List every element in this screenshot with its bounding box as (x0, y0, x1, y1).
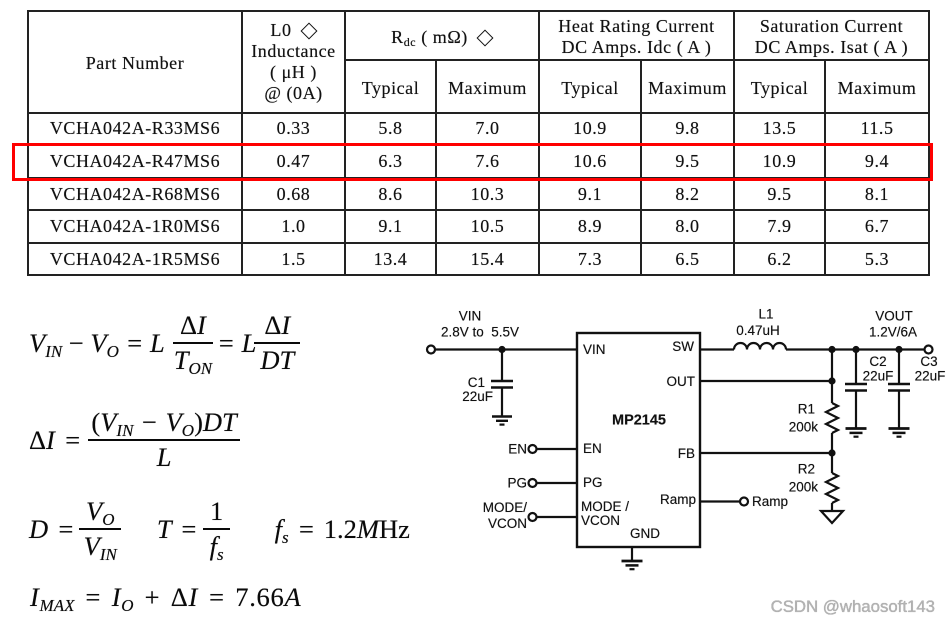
svg-text:MP2145: MP2145 (612, 413, 666, 429)
wire FB (700, 452, 832, 454)
svg-text:VCON: VCON (488, 516, 527, 531)
pin label MODE/VCON (581, 499, 629, 528)
svg-text:C1: C1 (468, 375, 485, 390)
ground GND pin (622, 561, 643, 569)
pin label OUT (667, 374, 696, 389)
wire PG (537, 482, 578, 484)
op IC U1 MP2145 body (577, 333, 700, 547)
svg-text:OUT: OUT (667, 374, 696, 389)
wire L1 to VOUT (786, 348, 924, 350)
label MP2145 (612, 413, 666, 429)
label C2 22uF (863, 354, 894, 384)
svg-text:1.2V/6A: 1.2V/6A (869, 325, 917, 340)
svg-text:FB: FB (678, 446, 695, 461)
terminal PG (507, 476, 536, 491)
svg-text:SW: SW (672, 339, 694, 354)
svg-text:MODE /: MODE / (581, 499, 629, 514)
highlight box around row VCHA042A-R47MS6 (12, 143, 933, 181)
ground C3 (889, 429, 910, 437)
node VIN input terminal (427, 346, 435, 354)
watermark (771, 597, 935, 617)
resistor R1 (826, 403, 838, 453)
label C3 22uF (915, 354, 946, 384)
formula 4: Imax = Io + dI = 7.66A (30, 582, 301, 613)
terminal MODE/VCON (483, 500, 537, 531)
svg-text:2.8V to 5.5V: 2.8V to 5.5V (441, 325, 519, 340)
spec table (27, 10, 930, 276)
svg-text:22uF: 22uF (863, 369, 894, 384)
svg-text:200k: 200k (789, 420, 819, 435)
ground C2 (846, 429, 867, 437)
svg-text:MODE/: MODE/ (483, 500, 528, 515)
ground R2 arrow (821, 511, 843, 523)
pin label VIN (583, 342, 606, 357)
label L1 0.47uH (736, 307, 780, 339)
formula 3: D = Vo/Vin T = 1/fs fs = 1.2MHz (29, 496, 410, 562)
svg-text:22uF: 22uF (915, 369, 946, 384)
svg-text:C2: C2 (869, 354, 886, 369)
pin label PG (583, 475, 603, 490)
svg-text:PG: PG (583, 475, 603, 490)
junction FB/R1/R2 (828, 449, 835, 456)
svg-text:200k: 200k (789, 480, 819, 495)
svg-text:GND: GND (630, 526, 660, 541)
junction VIN/C1 (498, 346, 505, 353)
terminal EN (508, 442, 536, 457)
node VOUT terminal (925, 346, 933, 354)
capacitor C1 (491, 350, 513, 417)
wire SW to L1 (700, 348, 734, 350)
label R1 200k (789, 402, 819, 435)
inductor L1 (734, 343, 786, 349)
junction SW node / R1 branch (828, 346, 835, 353)
svg-text:0.47uH: 0.47uH (736, 323, 780, 338)
svg-text:VIN: VIN (583, 342, 606, 357)
svg-text:EN: EN (583, 441, 602, 456)
label VOUT (869, 309, 917, 340)
svg-text:R1: R1 (798, 402, 815, 417)
wire GND pin (631, 547, 633, 560)
pin label SW (672, 339, 694, 354)
svg-text:Ramp: Ramp (660, 492, 696, 507)
svg-text:R2: R2 (798, 462, 815, 477)
svg-text:VIN: VIN (459, 309, 482, 324)
wire OUT to R1 top (700, 380, 832, 382)
wire MODE/VCON (537, 516, 578, 518)
label VIN supply (441, 309, 519, 340)
svg-text:C3: C3 (920, 354, 937, 369)
resistor R2 (826, 453, 838, 511)
pin label EN (583, 441, 602, 456)
wire VIN to IC (435, 348, 577, 350)
formula 1: Vin - Vo = L dI/Ton = L dI/DT (29, 310, 303, 376)
pin label FB (678, 446, 695, 461)
svg-text:VOUT: VOUT (875, 309, 913, 324)
junction OUT/R1 (828, 377, 835, 384)
junction C3 (895, 346, 902, 353)
wire EN (537, 448, 578, 450)
label C1 22uF (462, 375, 493, 404)
label R2 200k (789, 462, 819, 495)
junction C2 (852, 346, 859, 353)
svg-text:22uF: 22uF (462, 389, 493, 404)
svg-text:PG: PG (507, 476, 527, 491)
ground C1 (492, 417, 512, 425)
svg-text:L1: L1 (758, 307, 773, 322)
pin label Ramp (660, 492, 696, 507)
pin label GND (630, 526, 660, 541)
wire Ramp (700, 500, 740, 502)
svg-text:VCON: VCON (581, 513, 620, 528)
svg-text:EN: EN (508, 442, 527, 457)
capacitor C3 (888, 350, 910, 429)
terminal Ramp (740, 494, 788, 509)
formula 2: dI = (Vin-Vo)DT / L (29, 407, 242, 473)
capacitor C2 (845, 350, 867, 429)
svg-text:Ramp: Ramp (752, 494, 788, 509)
wire SW node down to R1 (831, 350, 833, 404)
